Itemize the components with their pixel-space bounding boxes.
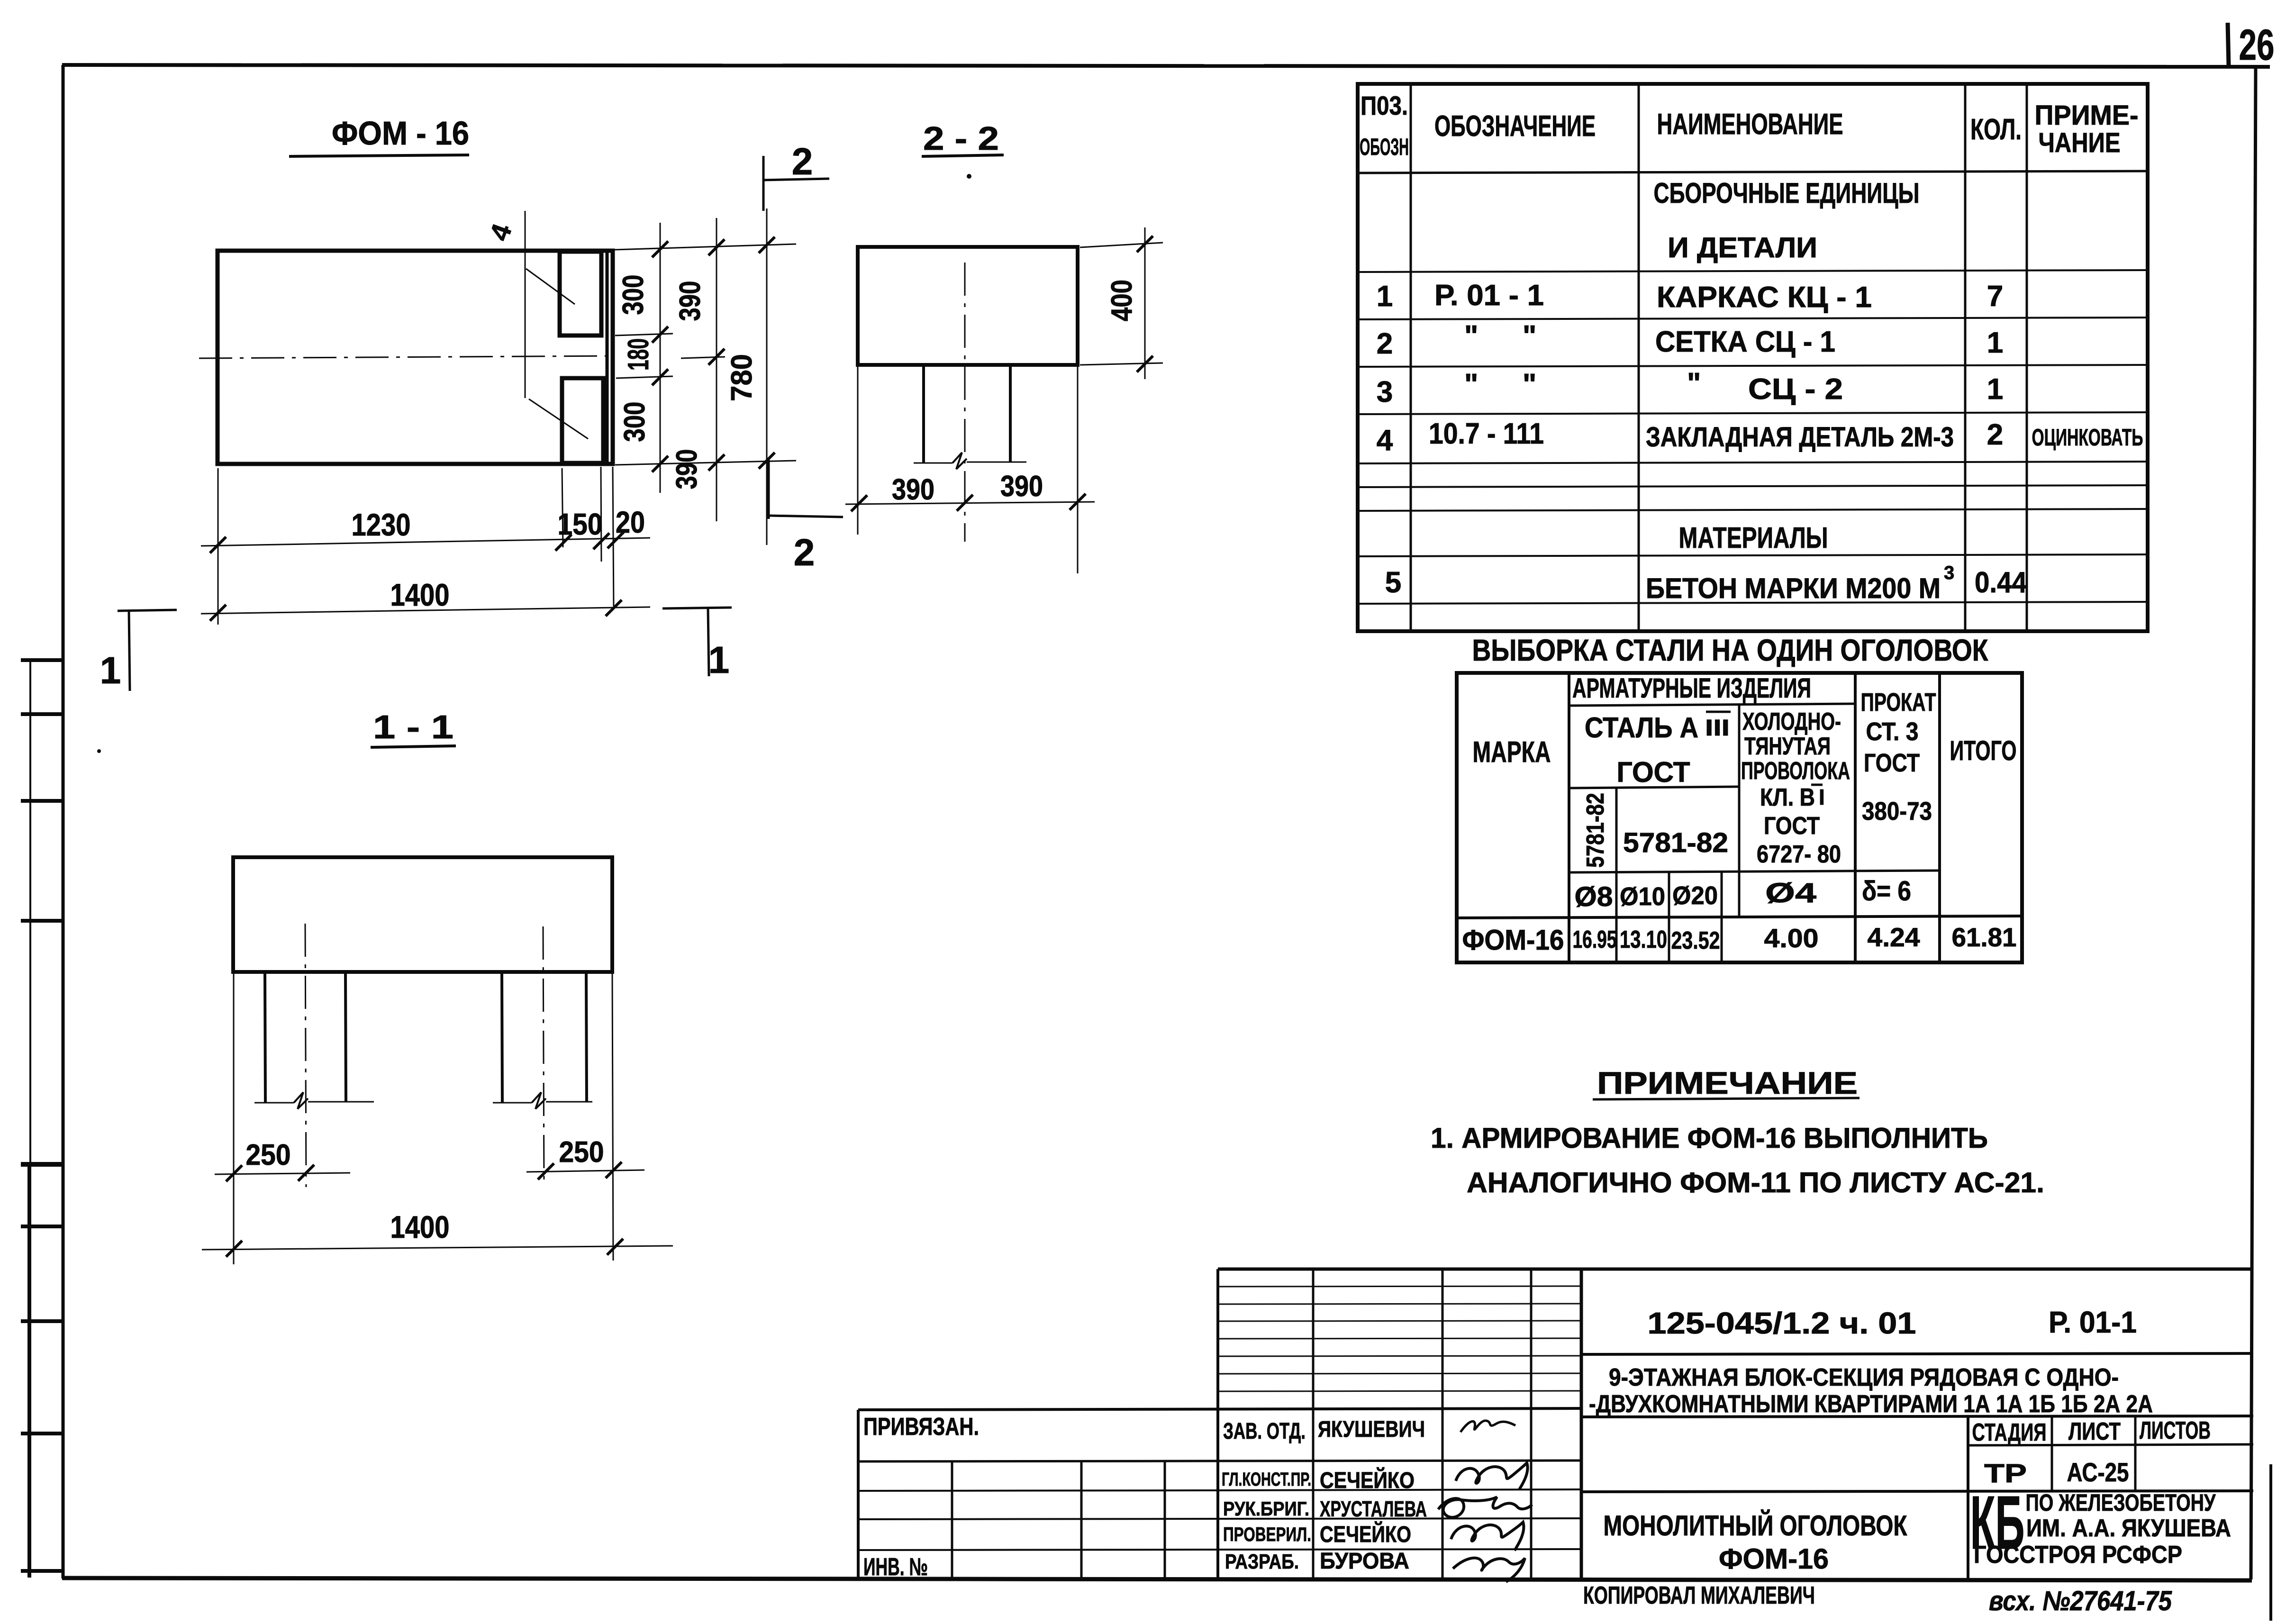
svg-text:390: 390 [674, 281, 707, 321]
svg-text:23.52: 23.52 [1671, 927, 1720, 954]
svg-text:5781-82: 5781-82 [1582, 793, 1609, 868]
svg-text:ФОМ-16: ФОМ-16 [1719, 1543, 1829, 1575]
steel table gost 5781-82 [1623, 827, 1728, 858]
svg-text:КЛ. В: КЛ. В [1760, 784, 1815, 811]
svg-text:АНАЛОГИЧНО ФОМ-11 ПО ЛИСТ: АНАЛОГИЧНО ФОМ-11 ПО ЛИСТУ АС-21. [1467, 1167, 2044, 1198]
section 2-2 left leg [922, 365, 925, 463]
svg-text:ГОСТ: ГОСТ [1864, 749, 1920, 777]
svg-text:ПРОКАТ: ПРОКАТ [1861, 688, 1936, 717]
svg-text:": " [1523, 320, 1536, 353]
svg-text:125-045/1.2 ч. 01: 125-045/1.2 ч. 01 [1648, 1306, 1916, 1340]
section mark 1 right [662, 608, 732, 681]
title block drawing name cell [1581, 1491, 2253, 1575]
svg-text:Р. 01-1: Р. 01-1 [2049, 1305, 2137, 1339]
svg-text:НАИМЕНОВАНИЕ: НАИМЕНОВАНИЕ [1657, 108, 1843, 141]
plan right extension lines [614, 244, 796, 465]
svg-text:0.44: 0.44 [1975, 566, 2027, 599]
title block stadia list row [1581, 1416, 2253, 1579]
svg-text:ГОССТРОЯ РСФСР: ГОССТРОЯ РСФСР [1974, 1541, 2182, 1569]
svg-text:1: 1 [1987, 373, 2003, 406]
svg-text:390: 390 [1000, 470, 1043, 503]
steel table header Марка [1473, 736, 1551, 769]
spec header Наименование [1657, 108, 1843, 141]
spec header Примечание [2035, 100, 2139, 158]
spec header Кол [1970, 113, 2022, 146]
svg-text:1230: 1230 [352, 507, 411, 542]
title block row Зав отд Якушевич [1223, 1417, 1515, 1444]
plan bottom dimension 1400 [201, 577, 650, 621]
section 1-1 dimension 1400 [202, 1209, 673, 1257]
svg-text:МОНОЛИТНЫЙ ОГОЛОВОК: МОНОЛИТНЫЙ ОГОЛОВОК [1604, 1510, 1907, 1542]
scan edge artifact right [2269, 1464, 2272, 1621]
steel table header Сталь АIII ГОСТ [1585, 712, 1731, 788]
svg-text:2: 2 [792, 140, 813, 182]
svg-text:ПРОВЕРИЛ.: ПРОВЕРИЛ. [1223, 1523, 1311, 1545]
svg-text:РАЗРАБ.: РАЗРАБ. [1225, 1550, 1299, 1573]
svg-text:ХРУСТАЛЕВА: ХРУСТАЛЕВА [1320, 1497, 1427, 1521]
svg-text:СТ. 3: СТ. 3 [1866, 717, 1919, 746]
plan lower notch [562, 378, 603, 463]
inventory handwritten note [1989, 1586, 2172, 1616]
svg-text:ОБОЗНАЧЕНИЕ: ОБОЗНАЧЕНИЕ [1434, 110, 1596, 143]
svg-text:ЗАВ. ОТД.: ЗАВ. ОТД. [1223, 1419, 1306, 1444]
svg-text:": " [1464, 368, 1478, 401]
svg-text:3: 3 [1944, 563, 1954, 583]
svg-text:Ø4: Ø4 [1765, 878, 1816, 908]
svg-text:ОБОЗН: ОБОЗН [1360, 134, 1409, 160]
svg-text:КОПИРОВАЛ МИХАЛЕВИЧ: КОПИРОВАЛ МИХАЛЕВИЧ [1583, 1582, 1815, 1609]
svg-text:И ДЕТАЛИ: И ДЕТАЛИ [1668, 232, 1817, 263]
svg-text:1 - 1: 1 - 1 [373, 708, 454, 745]
svg-text:380-73: 380-73 [1862, 797, 1932, 826]
plan bottom dimension 1230 150 20 [201, 467, 650, 625]
title block label Инв № [863, 1553, 928, 1581]
svg-text:ПРИМЕ-: ПРИМЕ- [2035, 100, 2139, 131]
svg-text:1400: 1400 [390, 1209, 450, 1244]
steel table header холоднотянутая проволока [1741, 708, 1850, 868]
plan view body outline [218, 251, 613, 464]
specification table grid [1358, 84, 2148, 631]
svg-text:ВЫБОРКА СТАЛИ НА ОДИН ОГО: ВЫБОРКА СТАЛИ НА ОДИН ОГОЛОВОК [1472, 633, 1989, 667]
svg-text:2: 2 [794, 531, 815, 573]
spec group title Сборочные единицы и детали [1654, 177, 1920, 263]
svg-text:III: III [1705, 716, 1730, 741]
svg-text:3: 3 [1377, 376, 1393, 408]
section 2-2 break line [914, 453, 1026, 469]
note text line 2 [1467, 1167, 2044, 1198]
title block row Гл конст пр Сечейко [1222, 1463, 1528, 1493]
svg-text:1: 1 [708, 639, 730, 681]
section 1-1 cap outline [233, 857, 612, 972]
section 1-1 title [371, 708, 456, 747]
steel table header Итого [1950, 735, 2017, 766]
svg-text:300: 300 [618, 402, 651, 442]
svg-text:61.81: 61.81 [1952, 922, 2017, 952]
steel take-off title [1472, 633, 1989, 667]
svg-text:МАРКА: МАРКА [1473, 736, 1551, 769]
svg-text:Ø8: Ø8 [1575, 881, 1613, 912]
svg-text:Ø20: Ø20 [1672, 881, 1718, 910]
title block signature row lines [858, 1461, 1581, 1550]
plan upper notch [560, 252, 601, 336]
svg-text:250: 250 [246, 1139, 291, 1171]
svg-text:ГОСТ: ГОСТ [1617, 756, 1690, 788]
section 1-1 right leg lines [502, 972, 587, 1102]
section 1-1 side extension lines [234, 972, 613, 1264]
svg-text:ЛИСТ: ЛИСТ [2068, 1418, 2121, 1445]
title block row Рук бриг Хрусталева [1223, 1497, 1532, 1521]
svg-text:ИТОГО: ИТОГО [1950, 735, 2017, 766]
left margin fold strip [21, 660, 101, 1578]
section mark 2 upper [763, 140, 829, 211]
svg-text:1: 1 [1987, 327, 2003, 359]
svg-text:26: 26 [2239, 21, 2275, 69]
svg-text:СТАДИЯ: СТАДИЯ [1972, 1419, 2047, 1446]
section 2-2 dimension 390 390 [845, 365, 1095, 573]
svg-text:": " [1523, 368, 1536, 401]
svg-text:ЧАНИЕ: ЧАНИЕ [2039, 127, 2121, 158]
spec row 2 Сетка СЦ-1 [1377, 320, 2003, 360]
note heading Примечание [1593, 1065, 1860, 1100]
spec header Обозначение [1434, 110, 1596, 143]
plan view title ФОМ-16 [289, 115, 469, 156]
svg-text:ПРИМЕЧАНИЕ: ПРИМЕЧАНИЕ [1597, 1065, 1858, 1100]
svg-text:": " [1464, 320, 1478, 353]
svg-text:СЕЧЕЙКО: СЕЧЕЙКО [1320, 1467, 1415, 1493]
title block doc number cell [1581, 1305, 2253, 1354]
svg-text:400: 400 [1106, 280, 1138, 321]
steel table diameter row [1575, 876, 1912, 912]
svg-text:БЕТОН МАРКИ М200 М: БЕТОН МАРКИ М200 М [1646, 572, 1941, 604]
svg-text:КАРКАС КЦ - 1: КАРКАС КЦ - 1 [1657, 281, 1872, 314]
svg-text:1. АРМИРОВАНИЕ ФОМ-16 ВЫ: 1. АРМИРОВАНИЕ ФОМ-16 ВЫПОЛНИТЬ [1431, 1122, 1988, 1154]
svg-text:ИМ. А.А. ЯКУШЕВА: ИМ. А.А. ЯКУШЕВА [2026, 1515, 2231, 1542]
svg-text:ОЦИНКОВАТЬ: ОЦИНКОВАТЬ [2032, 424, 2143, 451]
copied by note [1583, 1582, 1815, 1609]
svg-text:6727- 80: 6727- 80 [1757, 841, 1841, 868]
steel table rotated gost 5781-82 [1582, 793, 1609, 868]
spec row 1 Каркас КЦ-1 [1377, 279, 2003, 314]
plan right dimension 780 [726, 209, 775, 545]
svg-text:4.00: 4.00 [1764, 923, 1819, 953]
steel table grid [1457, 673, 2022, 962]
svg-text:9-ЭТАЖНАЯ БЛОК-СЕКЦИЯ РЯДОВА: 9-ЭТАЖНАЯ БЛОК-СЕКЦИЯ РЯДОВАЯ С ОДНО- [1609, 1364, 2119, 1391]
leader 4 callout [484, 211, 588, 439]
spec row 4 Закладная деталь 2М-3 [1377, 417, 2143, 457]
svg-text:I: I [1819, 785, 1825, 809]
svg-text:180: 180 [622, 338, 655, 371]
svg-text:150: 150 [558, 507, 603, 541]
svg-text:МАТЕРИАЛЫ: МАТЕРИАЛЫ [1679, 522, 1828, 554]
svg-text:4: 4 [1377, 424, 1393, 457]
note text line 1 [1431, 1122, 1988, 1154]
svg-text:250: 250 [559, 1136, 604, 1169]
svg-text:5: 5 [1385, 566, 1401, 599]
svg-text:ИНВ. №: ИНВ. № [863, 1553, 928, 1581]
svg-text:1: 1 [100, 649, 121, 691]
spec row 5 Бетон марки м200 [1385, 563, 2027, 604]
plan right dimension 300 180 300 [617, 223, 668, 493]
steel table header Прокат ст3 ГОСТ 380-73 [1861, 688, 1936, 826]
title block revision grid rows [1218, 1286, 1581, 1391]
svg-text:ЯКУШЕВИЧ: ЯКУШЕВИЧ [1318, 1417, 1425, 1442]
svg-text:δ= 6: δ= 6 [1862, 876, 1911, 907]
svg-text:КОЛ.: КОЛ. [1970, 113, 2022, 146]
title block left sub columns [952, 1461, 1165, 1578]
svg-text:СБОРОЧНЫЕ ЕДИНИЦЫ: СБОРОЧНЫЕ ЕДИНИЦЫ [1654, 177, 1920, 209]
svg-text:всх. №27641-75: всх. №27641-75 [1989, 1586, 2172, 1616]
section 2-2 title [922, 120, 1004, 179]
svg-text:ФОМ - 16: ФОМ - 16 [332, 115, 469, 152]
svg-text:Р. 01 - 1: Р. 01 - 1 [1434, 279, 1544, 312]
svg-text:ТЯНУТАЯ: ТЯНУТАЯ [1744, 733, 1831, 760]
svg-text:2 - 2: 2 - 2 [923, 120, 999, 157]
title block row Разраб Бурова [1225, 1549, 1525, 1582]
svg-text:ГЛ.КОНСТ.ПР.: ГЛ.КОНСТ.ПР. [1222, 1469, 1311, 1490]
section 1-1 right break line [493, 1092, 592, 1109]
svg-text:ЗАКЛАДНАЯ ДЕТАЛЬ 2М-3: ЗАКЛАДНАЯ ДЕТАЛЬ 2М-3 [1646, 422, 1954, 453]
svg-text:ФОМ-16: ФОМ-16 [1462, 924, 1564, 956]
svg-text:": " [1687, 367, 1701, 400]
plan right dimension 390 390 [671, 218, 725, 521]
title block object name cell [1589, 1364, 2153, 1418]
svg-text:300: 300 [617, 275, 650, 315]
svg-text:П03.: П03. [1361, 91, 1408, 120]
svg-text:390: 390 [671, 449, 703, 490]
page number 26 [2228, 21, 2275, 69]
section 1-1 dimension 250 left [215, 1139, 350, 1181]
svg-text:СЕЧЕЙКО: СЕЧЕЙКО [1320, 1521, 1411, 1547]
svg-text:Ø10: Ø10 [1620, 882, 1665, 911]
title block signature column lines [1313, 1269, 1531, 1579]
svg-text:10.7 - 111: 10.7 - 111 [1429, 417, 1544, 450]
section 1-1 dimension 250 right [526, 1136, 644, 1179]
section 1-1 left break line [254, 1092, 374, 1109]
svg-text:РУК.БРИГ.: РУК.БРИГ. [1223, 1497, 1309, 1520]
svg-text:13.10: 13.10 [1620, 926, 1667, 953]
svg-text:ЛИСТОВ: ЛИСТОВ [2140, 1417, 2211, 1444]
section 2-2 cap outline [858, 247, 1078, 365]
spec row 3 СЦ-2 [1377, 367, 2003, 408]
title block row Проверил Сечейко [1223, 1521, 1524, 1551]
steel table header Арматурные изделия [1572, 673, 1811, 704]
section 2-2 centre axis [964, 263, 966, 542]
svg-text:ПО ЖЕЛЕЗОБЕТОНУ: ПО ЖЕЛЕЗОБЕТОНУ [2026, 1489, 2216, 1516]
svg-text:СЦ - 2: СЦ - 2 [1748, 373, 1843, 406]
spec group title Материалы [1679, 522, 1828, 554]
svg-text:ГОСТ: ГОСТ [1764, 812, 1820, 840]
steel table data row ФОМ-16 [1462, 922, 2017, 956]
section 2-2 dimension 400 [1080, 227, 1163, 379]
svg-text:20: 20 [616, 505, 645, 539]
svg-text:АС-25: АС-25 [2067, 1457, 2129, 1487]
section 2-2 right leg [1009, 365, 1012, 463]
svg-text:БУРОВА: БУРОВА [1320, 1549, 1409, 1574]
svg-text:ХОЛОДНО-: ХОЛОДНО- [1742, 708, 1841, 735]
svg-text:АРМАТУРНЫЕ ИЗДЕЛИЯ: АРМАТУРНЫЕ ИЗДЕЛИЯ [1572, 673, 1811, 704]
title block organisation cell КБ [1970, 1480, 2232, 1569]
svg-text:ПРОВОЛОКА: ПРОВОЛОКА [1741, 757, 1850, 785]
title block outer lines [858, 1269, 2253, 1579]
svg-text:2: 2 [1377, 327, 1393, 360]
svg-text:390: 390 [892, 473, 934, 506]
svg-text:-ДВУХКОМНАТНЫМИ КВАРТИРАМИ: -ДВУХКОМНАТНЫМИ КВАРТИРАМИ 1А 1А 1Б 1Б 2… [1589, 1390, 2153, 1418]
svg-text:СТАЛЬ А: СТАЛЬ А [1585, 712, 1698, 744]
section 1-1 right centre axis [543, 926, 544, 1187]
svg-text:2: 2 [1987, 418, 2003, 451]
svg-text:7: 7 [1987, 280, 2003, 313]
svg-text:1400: 1400 [390, 577, 450, 612]
plan centre axis line [199, 356, 614, 358]
section 1-1 left centre axis [305, 924, 306, 1187]
svg-text:5781-82: 5781-82 [1623, 827, 1728, 858]
svg-text:16.95: 16.95 [1573, 926, 1617, 953]
svg-text:СЕТКА СЦ - 1: СЕТКА СЦ - 1 [1655, 326, 1835, 358]
svg-text:780: 780 [726, 354, 758, 401]
spec header Поз обозн [1360, 91, 1409, 160]
svg-text:ПРИВЯЗАН.: ПРИВЯЗАН. [863, 1413, 979, 1441]
svg-text:1: 1 [1377, 280, 1393, 313]
section 1-1 left leg lines [265, 972, 346, 1102]
section mark 2 lower [769, 459, 843, 573]
title block label Привязан [863, 1413, 979, 1441]
svg-text:4.24: 4.24 [1868, 922, 1920, 952]
section mark 1 left [100, 610, 177, 691]
svg-text:4: 4 [484, 220, 518, 245]
